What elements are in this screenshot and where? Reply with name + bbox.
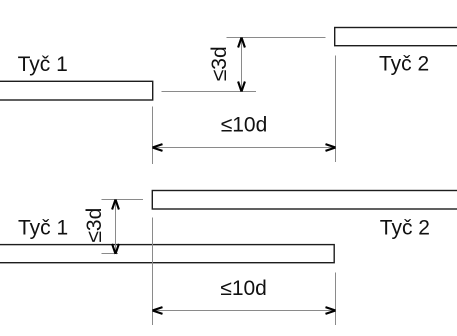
arrow left (bottom 10d) — [153, 307, 163, 314]
arrow up (bottom 3d) — [112, 200, 119, 210]
left extension line (bottom 10d) — [152, 218, 154, 326]
svg-text:Tyč 2: Tyč 2 — [379, 52, 429, 75]
extension line at bar1 axis (bottom) — [102, 253, 119, 255]
horizontal dimension line 10d (top) — [153, 147, 336, 149]
horizontal dimension line 10d (bottom) — [153, 310, 336, 312]
right extension line (top 10d) — [335, 56, 337, 163]
bar Tyc2 (bottom figure) — [152, 191, 457, 210]
arrow up (top 3d) — [238, 38, 245, 48]
bar Tyc1 (bottom figure) — [0, 245, 334, 263]
vertical dimension line 3d (bottom) — [115, 200, 117, 254]
vertical dimension line 3d (top) — [241, 38, 243, 92]
arrow down (bottom 3d) — [112, 244, 119, 254]
extension line at bar2 axis (bottom) — [102, 199, 144, 201]
left extension line (top 10d) — [152, 107, 154, 165]
svg-text:Tyč 2: Tyč 2 — [380, 216, 430, 239]
svg-text:≤10d: ≤10d — [221, 114, 268, 137]
svg-text:Tyč 1: Tyč 1 — [18, 53, 68, 76]
right extension line (bottom 10d) — [335, 273, 337, 326]
svg-text:≤10d: ≤10d — [220, 277, 267, 300]
extension line at bar2 axis (top) — [227, 37, 326, 39]
bar Tyc2 (top figure) — [335, 28, 457, 46]
svg-text:Tyč 1: Tyč 1 — [18, 216, 68, 239]
svg-text:≤3d: ≤3d — [208, 46, 231, 81]
arrow right (bottom 10d) — [326, 307, 336, 314]
arrow down (top 3d) — [238, 82, 245, 92]
svg-text:≤3d: ≤3d — [83, 208, 106, 243]
arrow right (top 10d) — [326, 144, 336, 151]
extension line at bar1 axis (top) — [162, 91, 257, 93]
arrow left (top 10d) — [153, 144, 163, 151]
bar Tyc1 (top figure) — [0, 81, 153, 100]
